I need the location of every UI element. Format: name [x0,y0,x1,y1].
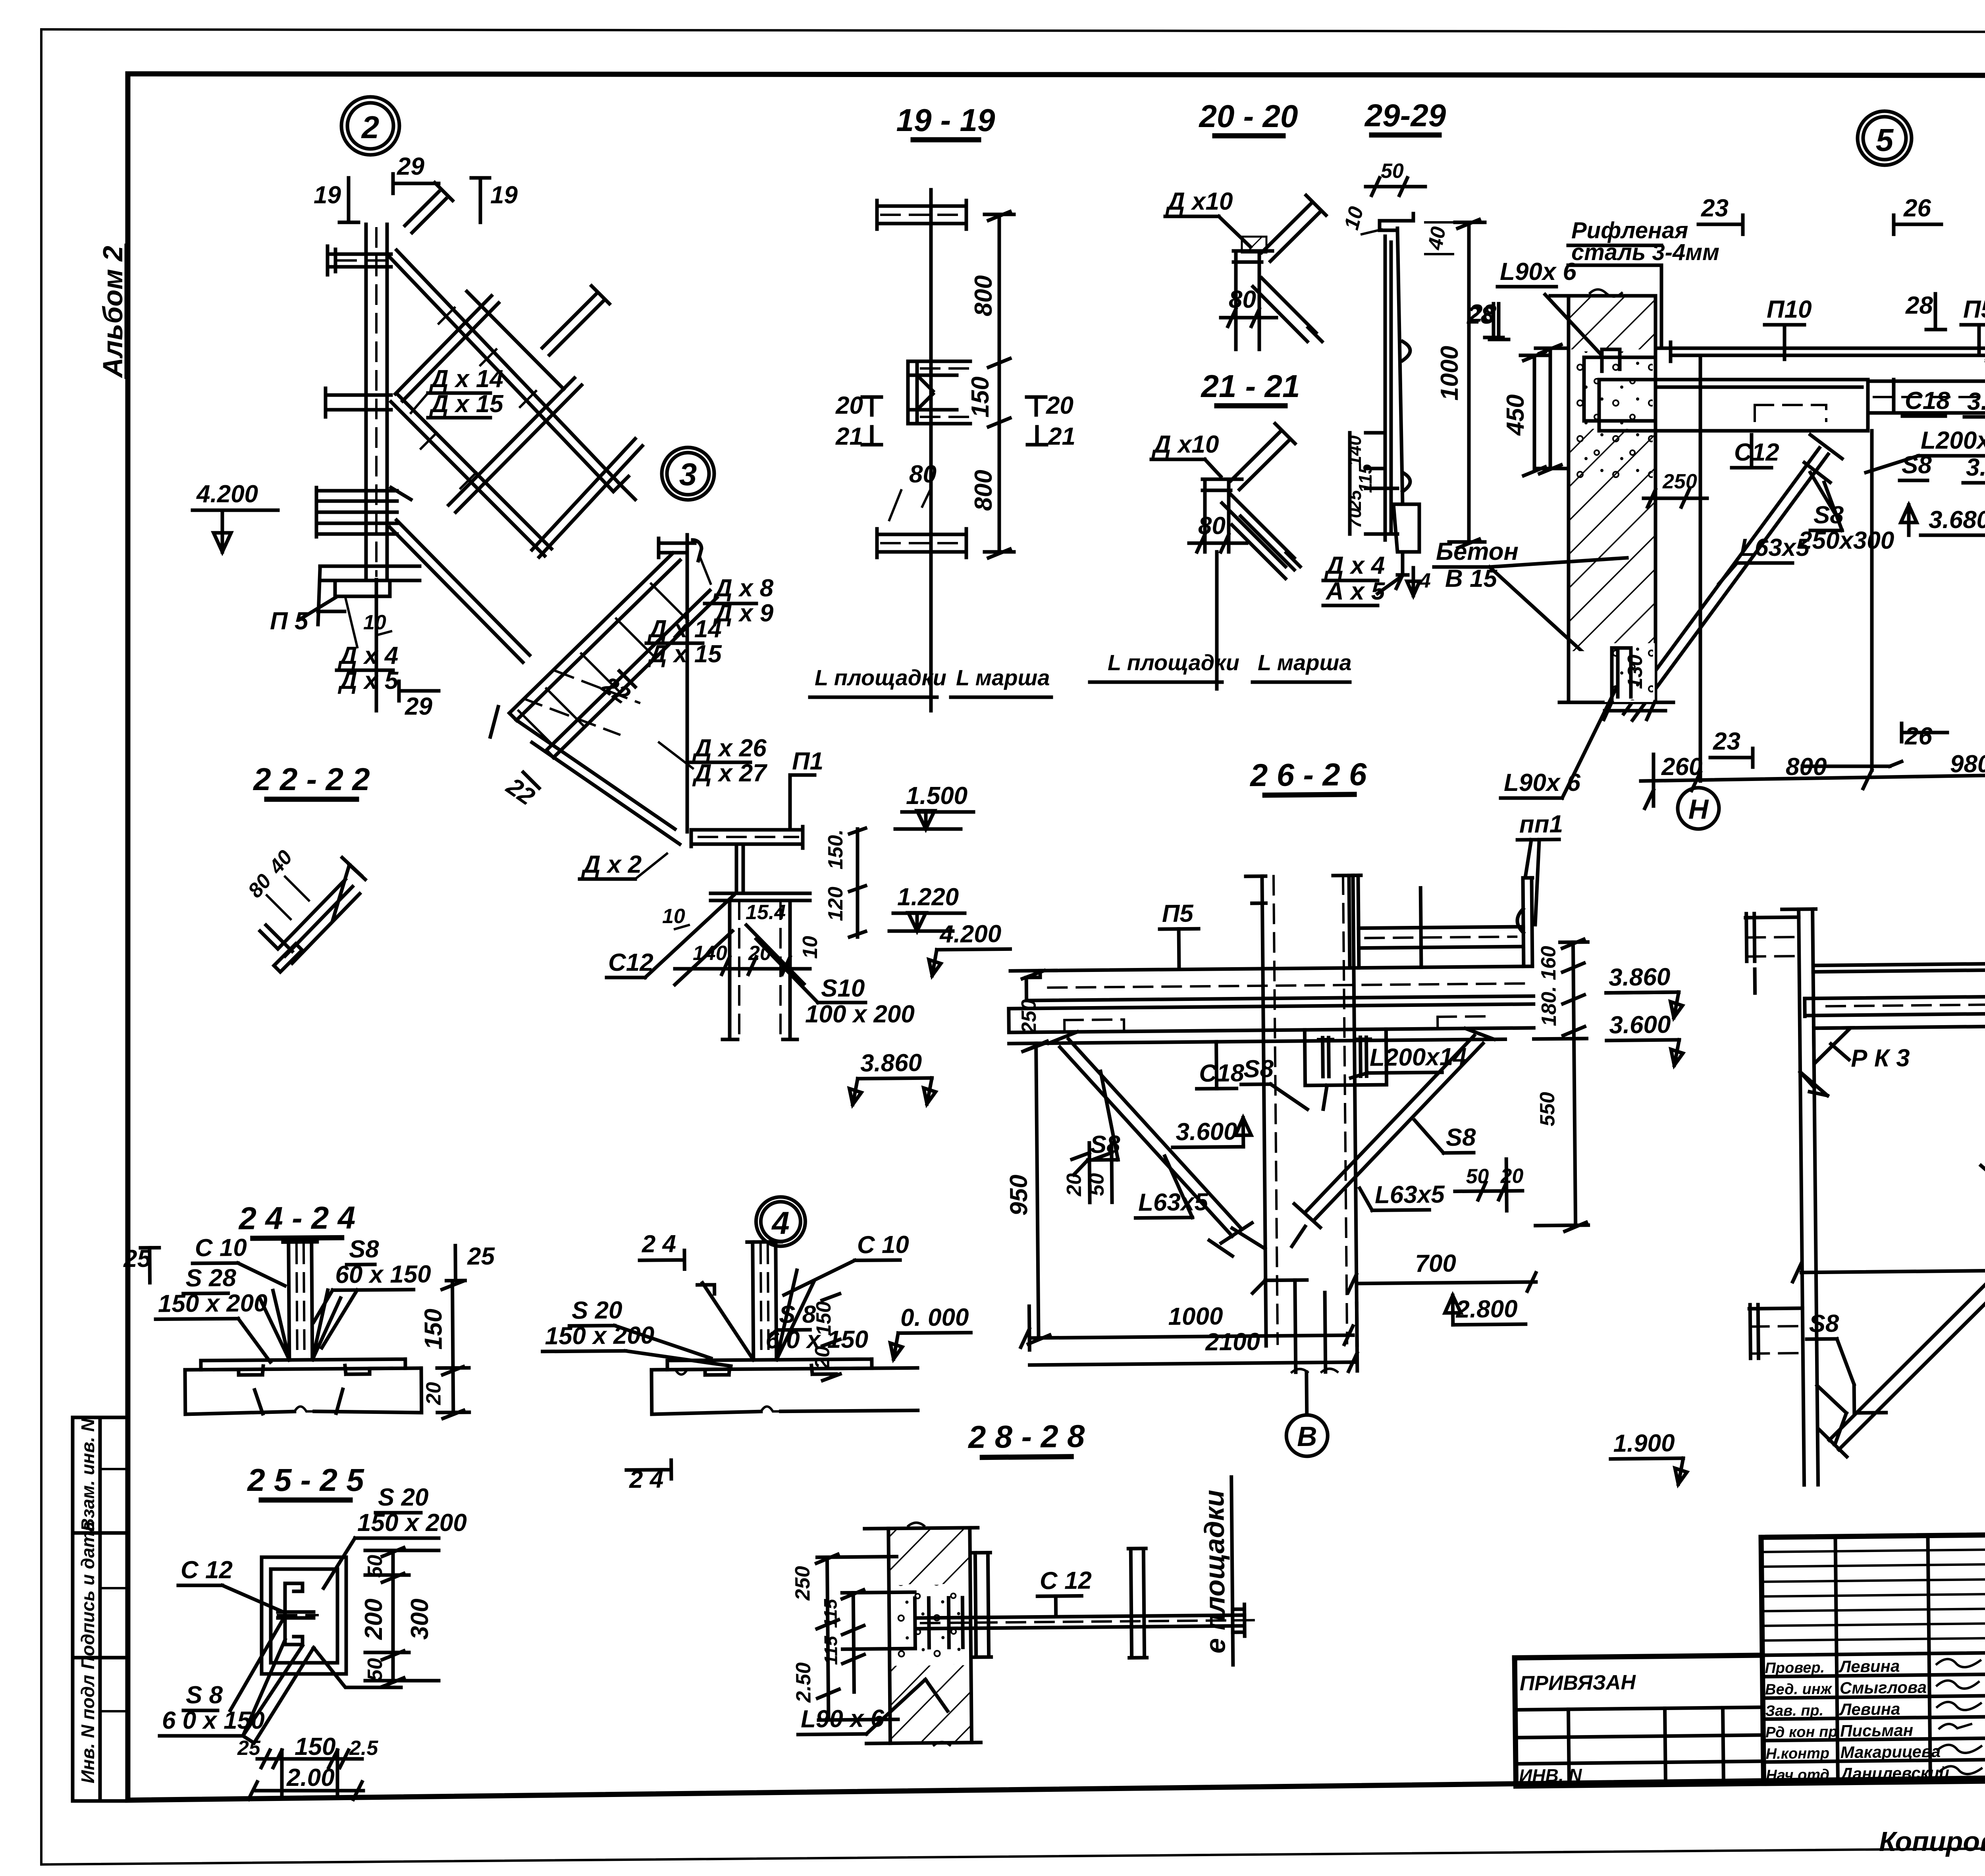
svg-text:140: 140 [1344,435,1365,466]
svg-text:L марша: L марша [1258,650,1351,675]
tread ticks on chords [421,308,536,488]
right diagonal brace [1293,1028,1495,1228]
svg-text:Письман: Письман [1840,1721,1913,1740]
channel continues right [1868,380,1985,413]
svg-text:15.4: 15.4 [746,901,786,924]
svg-text:23: 23 [1701,195,1729,222]
svg-text:100 х 200: 100 х 200 [805,1001,915,1028]
node circle 3 [662,447,714,500]
svg-text:5: 5 [1876,122,1894,158]
svg-text:3.860: 3.860 [860,1049,922,1077]
svg-text:115: 115 [820,1598,841,1628]
svg-text:1000: 1000 [1436,346,1463,401]
title block vertical dividers left part [1835,1537,1838,1783]
svg-text:1.500: 1.500 [906,782,967,810]
vertical text Album 2 at left margin [97,245,128,378]
bottom dims 25/150/25 + 200 [249,1750,363,1799]
svg-text:700: 700 [1415,1250,1456,1278]
column [747,1242,782,1360]
dim 450 [1521,352,1549,476]
svg-text:1.900: 1.900 [1613,1429,1675,1457]
svg-text:Н.контр: Н.контр [1765,1745,1829,1762]
dim 150/120 right [850,828,865,937]
node circle 5 [1858,111,1912,165]
treads between chords [518,584,688,744]
svg-text:19: 19 [490,181,518,209]
lattice cross braces [395,296,499,401]
left sidebar stamp boxes [73,1417,128,1801]
svg-text:29: 29 [405,693,432,720]
dim 1000 [1449,220,1485,548]
svg-text:115: 115 [820,1635,841,1665]
right dimension chain 800/150/800 [985,212,1014,558]
left dims [816,1554,916,1720]
right dims 50/200/50 + 300 [365,1548,439,1687]
svg-text:Инв. N подл: Инв. N подл [77,1675,98,1783]
dim 450 left of wall [1536,345,1569,474]
svg-text:800: 800 [970,470,997,511]
svg-text:3.600: 3.600 [1176,1118,1237,1145]
svg-text:980: 980 [1950,750,1985,778]
right dims 150 / 20 [437,1281,469,1419]
svg-text:250: 250 [1018,999,1041,1034]
svg-text:С 10: С 10 [857,1231,909,1259]
middle channel bracket [908,361,970,424]
svg-text:ИНВ. N: ИНВ. N [1519,1765,1582,1786]
svg-text:20: 20 [1500,1165,1523,1188]
bottom shoe [1393,504,1419,552]
svg-text:S8: S8 [1243,1055,1274,1083]
svg-text:450: 450 [1502,394,1529,436]
anchor rod [917,1615,1245,1629]
bottom dimension chain [1641,754,1985,808]
floor deck plate [1671,348,1985,355]
hatched wall pier [1569,296,1655,702]
title block main outline [1761,1529,1985,1783]
stiffener gussets [260,1290,341,1360]
svg-text:28: 28 [1905,292,1933,319]
svg-text:150: 150 [812,1301,836,1336]
svg-text:С18: С18 [1199,1059,1245,1087]
bottom break marks [254,1389,343,1414]
flight end cuts [490,707,553,758]
rib bumps [1403,341,1410,492]
lattice chord 3 [390,520,530,662]
svg-text:S 8: S 8 [779,1301,816,1328]
stair axis vertical [686,535,689,832]
svg-text:П5: П5 [1963,296,1985,323]
transition band to platform [516,720,680,844]
svg-text:150: 150 [967,376,994,417]
svg-text:L марша: L марша [956,665,1050,690]
svg-text:4.200: 4.200 [196,480,258,508]
svg-text:Вед. инж: Вед. инж [1765,1681,1833,1698]
svg-text:Взам. инв. N: Взам. инв. N [77,1418,98,1531]
svg-text:130: 130 [1624,655,1647,689]
column [283,1242,318,1360]
svg-text:21: 21 [835,423,863,450]
svg-text:С12: С12 [1734,439,1779,466]
diagonals down-right [1253,278,1322,341]
svg-text:Д х 4: Д х 4 [1324,552,1385,579]
svg-text:29-29: 29-29 [1364,98,1446,133]
node circle 2 [341,97,399,155]
bottom connection [1817,1385,1846,1445]
svg-text:50: 50 [364,1555,387,1578]
angled channel piece [260,858,365,963]
svg-text:800: 800 [1786,753,1827,781]
svg-text:ПРИВЯЗАН: ПРИВЯЗАН [1520,1671,1636,1695]
diagonals up-right [1262,195,1326,261]
svg-text:550: 550 [1536,1092,1559,1126]
vertical stub member [1203,479,1242,552]
base plate of node 2 [320,566,420,596]
svg-text:С12: С12 [608,949,653,976]
lattice chord 2 [391,395,551,556]
column mark N circle [1678,788,1719,829]
wall bottom bracket [1605,643,1655,702]
svg-text:П1: П1 [792,748,823,775]
lattice top stub [405,183,453,233]
main beam band [1599,380,1868,431]
svg-text:В: В [1297,1421,1317,1452]
svg-text:20: 20 [1046,392,1073,419]
vertical leaf member [1385,236,1391,540]
svg-text:S 20: S 20 [378,1484,429,1511]
upper deck right [1333,874,1533,968]
svg-text:20: 20 [1062,1173,1086,1197]
hatched wall pillar [888,1528,972,1743]
svg-text:С 10: С 10 [195,1234,247,1262]
platform slab [1026,966,1534,1001]
svg-text:26: 26 [1903,195,1931,222]
base plate and slab [201,1359,405,1370]
platform band [1804,961,1985,1028]
lower beam bundle [316,488,397,537]
diagonals up-right [1231,424,1295,490]
svg-text:3.680: 3.680 [1929,506,1985,534]
svg-text:С18: С18 [1905,387,1950,415]
svg-text:Смыглова: Смыглова [1840,1678,1927,1697]
svg-text:26: 26 [1904,723,1932,750]
svg-text:3.600: 3.600 [1609,1011,1671,1039]
svg-text:800: 800 [970,275,997,316]
vertical stub member [1233,251,1272,328]
svg-text:L площадки: L площадки [815,665,946,690]
double diagonals down-right [1222,494,1300,578]
svg-text:4: 4 [771,1205,790,1241]
I-beam stem and base [711,844,810,900]
lower column continues [1295,1280,1326,1372]
vertical guide lines below [1699,355,1702,781]
svg-text:2.800: 2.800 [1455,1295,1518,1323]
axis line [929,190,933,711]
svg-text:S8: S8 [1809,1310,1839,1338]
lattice right stubs [467,286,609,389]
svg-text:950: 950 [1005,1174,1033,1216]
svg-text:2 5 - 2 5: 2 5 - 2 5 [247,1462,364,1498]
svg-text:Левина: Левина [1838,1656,1900,1676]
svg-text:S8: S8 [1445,1124,1476,1151]
base plate and slab [667,1359,872,1370]
svg-text:S8: S8 [349,1236,380,1263]
title block (rotated slightly to match scan skew) [1513,1529,1985,1786]
svg-text:150: 150 [420,1309,447,1350]
svg-text:2100: 2100 [1205,1328,1260,1356]
svg-text:3.600: 3.600 [1966,454,1985,481]
concrete fill at beam seat [1571,351,1653,427]
svg-text:Д х10: Д х10 [1165,188,1233,215]
svg-text:L200х14: L200х14 [1921,427,1985,454]
svg-text:L200х14: L200х14 [1370,1043,1467,1071]
left corner bracket RK3 [1813,1028,1851,1064]
svg-text:3.860: 3.860 [1609,963,1671,991]
svg-text:Д х 14: Д х 14 [429,365,503,393]
svg-text:Копировал Подлевская: Копировал Подлевская [1879,1826,1985,1857]
svg-text:20: 20 [811,1346,834,1369]
svg-text:L63х5: L63х5 [1375,1181,1445,1209]
svg-text:2 4 - 2 4: 2 4 - 2 4 [238,1200,355,1236]
svg-text:3: 3 [679,457,697,492]
upper beam stub through wall [1746,913,1799,961]
svg-text:50: 50 [364,1658,387,1681]
svg-text:пп1: пп1 [1519,810,1563,838]
svg-text:С 12: С 12 [1040,1567,1092,1595]
left dim stack 140/115/25/70 [1350,433,1397,534]
svg-text:29: 29 [397,153,424,180]
svg-text:19: 19 [314,181,341,209]
svg-text:С 12: С 12 [181,1556,233,1584]
svg-text:Д х 26: Д х 26 [692,735,767,762]
svg-text:2 4: 2 4 [642,1230,676,1258]
svg-text:25: 25 [237,1737,261,1760]
svg-text:21: 21 [1048,423,1075,450]
column of node 2 [364,224,368,580]
svg-text:2.00: 2.00 [286,1764,335,1791]
lattice main chord 1 [390,250,620,492]
platform beam [691,827,803,848]
svg-text:2 6 - 2 6: 2 6 - 2 6 [1249,756,1367,793]
svg-text:S8: S8 [1902,451,1932,479]
svg-text:Левина: Левина [1839,1699,1900,1719]
svg-text:200: 200 [360,1598,387,1640]
apex plates [1209,1226,1307,1294]
title block left extension [1515,1655,1762,1658]
svg-text:Альбом 2: Альбом 2 [97,246,128,378]
svg-text:Д х 4: Д х 4 [337,642,398,669]
svg-text:40: 40 [1424,225,1450,252]
svg-text:S 8: S 8 [186,1681,223,1709]
svg-text:2.50: 2.50 [792,1662,815,1703]
outer plate pair left [973,1552,991,1657]
svg-text:70: 70 [1344,508,1365,528]
stiffener gussets [702,1270,814,1360]
mid-left beam stub [326,388,391,417]
svg-text:4.200: 4.200 [939,920,1002,948]
svg-text:L90х 6: L90х 6 [1500,258,1577,285]
svg-text:20 - 20: 20 - 20 [1198,98,1298,134]
embedded angle top [1602,349,1620,371]
svg-text:25: 25 [1344,490,1365,511]
svg-text:180. 160: 180. 160 [1537,946,1561,1026]
svg-text:L63х5: L63х5 [1740,534,1810,561]
nut right end [1233,1604,1245,1636]
svg-text:2.5: 2.5 [349,1737,378,1760]
svg-text:21 - 21: 21 - 21 [1200,368,1300,404]
svg-text:10: 10 [662,905,685,928]
svg-text:120: 120 [824,887,847,921]
svg-text:Д х 8: Д х 8 [713,575,774,602]
svg-text:S10: S10 [821,975,865,1002]
svg-text:2 2 - 2 2: 2 2 - 2 2 [252,762,370,797]
svg-text:250: 250 [1662,470,1697,493]
anchor bolts center [1305,1029,1386,1085]
svg-text:Макарицева: Макарицева [1840,1742,1941,1762]
left diagonal brace [1048,1030,1252,1244]
thin rows upper-left grid [1761,1549,1985,1552]
bottom platform beam [877,529,966,557]
wall column [1782,909,1821,1485]
svg-text:2: 2 [361,110,380,145]
svg-text:Нач отд: Нач отд [1766,1766,1829,1784]
svg-text:Подпись и дата: Подпись и дата [77,1521,98,1670]
svg-text:150: 150 [295,1733,335,1760]
svg-text:80: 80 [1198,512,1226,540]
svg-text:Рд кон пр: Рд кон пр [1765,1724,1838,1741]
svg-text:25: 25 [467,1243,495,1270]
name rows [1763,1674,1985,1677]
svg-text:0. 000: 0. 000 [900,1303,969,1331]
node circle 4 [756,1197,806,1246]
svg-text:Данилевский: Данилевский [1839,1763,1949,1783]
small angle top [698,1285,715,1294]
flight upper chord [509,553,680,720]
svg-text:Д х 14: Д х 14 [647,615,722,643]
svg-text:1.220: 1.220 [897,883,959,911]
svg-text:S 20: S 20 [572,1296,622,1324]
svg-text:П10: П10 [1767,296,1812,323]
central column [1262,875,1357,1346]
svg-text:L площадки: L площадки [1108,650,1239,675]
svg-text:S 28: S 28 [185,1264,237,1292]
svg-text:Провер.: Провер. [1765,1659,1825,1677]
svg-text:3.860: 3.860 [1967,388,1985,415]
svg-text:Д х10: Д х10 [1151,431,1219,458]
flight lower chord [546,590,717,758]
svg-text:300: 300 [406,1598,434,1639]
svg-text:19 - 19: 19 - 19 [896,102,995,138]
svg-text:250: 250 [791,1566,815,1601]
svg-text:Зав. пр.: Зав. пр. [1765,1702,1823,1720]
svg-text:260: 260 [1661,753,1702,781]
svg-text:Д х 2: Д х 2 [581,851,642,878]
svg-text:115: 115 [1355,463,1376,493]
big diagonal L125x8 [1815,1028,1985,1457]
svg-text:Н: Н [1688,794,1709,825]
svg-text:140: 140 [693,942,727,965]
top tread channel [659,538,701,561]
diagonal brace L63x5 [1624,448,1828,720]
svg-text:80: 80 [1229,286,1256,313]
svg-text:L63х5: L63х5 [1138,1188,1209,1217]
svg-text:е площадки: е площадки [1199,1490,1231,1654]
svg-text:2 8 - 2 8: 2 8 - 2 8 [967,1418,1085,1455]
svg-text:сталь 3-4мм: сталь 3-4мм [1571,239,1719,265]
svg-text:П 5: П 5 [270,607,309,635]
svg-text:Бетон: Бетон [1436,538,1519,565]
column below [723,900,797,1039]
top platform beam [877,201,966,229]
svg-text:10: 10 [799,936,822,959]
svg-text:1000: 1000 [1168,1303,1223,1330]
plates in wall [915,1598,963,1648]
svg-text:20: 20 [422,1382,445,1405]
lower beam stub [1749,1304,1803,1358]
svg-text:20: 20 [835,392,863,419]
svg-text:50: 50 [1381,160,1404,183]
outer box [262,1557,346,1674]
signatures squiggles [1937,1659,1980,1668]
top-left beam stub [328,246,391,275]
svg-text:80: 80 [909,461,937,488]
svg-text:150.: 150. [824,829,847,870]
C channel inside [285,1583,303,1645]
svg-text:П5: П5 [1162,900,1194,927]
svg-text:23: 23 [1713,728,1740,755]
outer plate pair right [1128,1548,1147,1658]
svg-text:Р К 3: Р К 3 [1851,1044,1910,1072]
column axis mark B [1305,1372,1309,1415]
